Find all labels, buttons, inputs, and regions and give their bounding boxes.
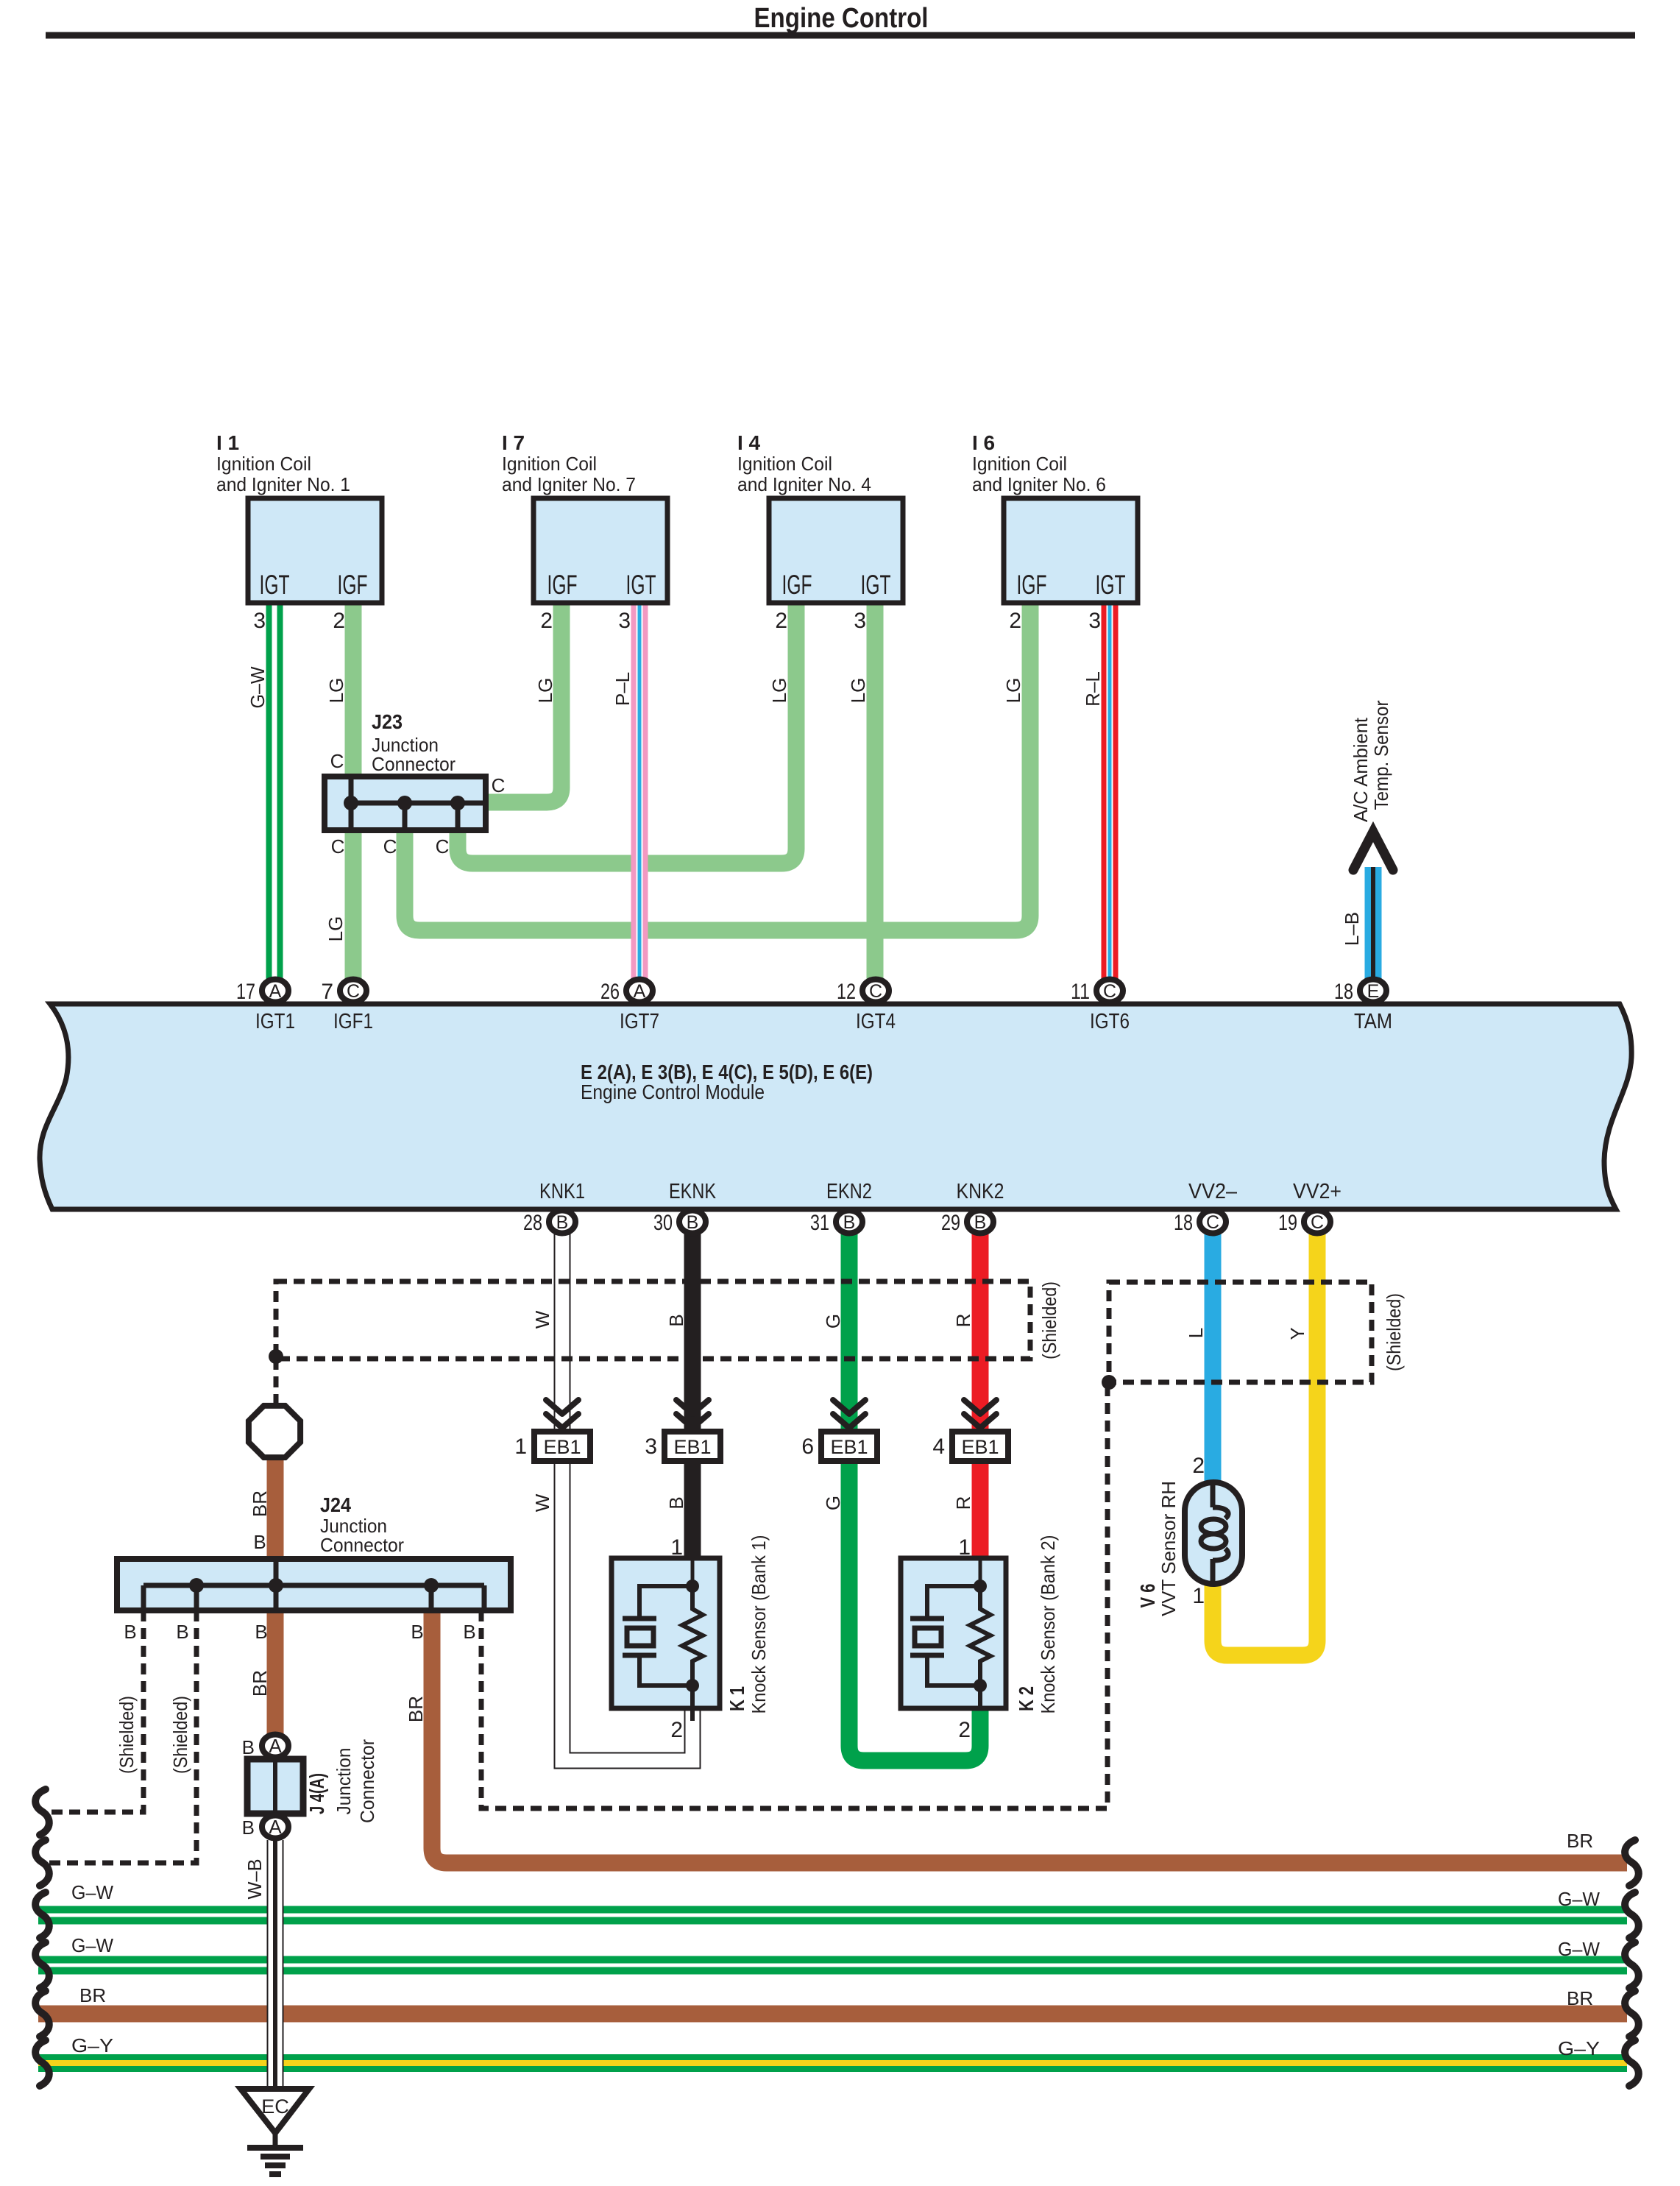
junction connector J24 box xyxy=(117,1559,511,1610)
svg-text:Ignition Coil: Ignition Coil xyxy=(502,453,597,475)
svg-text:G–W: G–W xyxy=(1558,1938,1600,1960)
ECM module body E2-E6 xyxy=(40,1004,1631,1209)
junction connector J23 box xyxy=(325,777,486,830)
svg-text:Y: Y xyxy=(1286,1327,1308,1340)
svg-text:B: B xyxy=(255,1621,267,1643)
svg-text:J23: J23 xyxy=(372,710,403,733)
svg-text:TAM: TAM xyxy=(1354,1010,1392,1033)
knock sensor K1 box xyxy=(612,1558,720,1721)
ECM pin numbers top xyxy=(236,980,1353,1004)
svg-text:1: 1 xyxy=(1192,1584,1205,1608)
svg-text:G–W: G–W xyxy=(247,666,269,708)
ECM pin 19 C (VV2+) xyxy=(1304,1211,1330,1234)
svg-text:18: 18 xyxy=(1334,980,1353,1004)
wire L from ECM pin 18 (VV2-) to V6 pin 2 xyxy=(1205,1223,1222,1484)
svg-text:Junction: Junction xyxy=(333,1748,355,1815)
node dot shield box1 xyxy=(269,1349,283,1364)
svg-text:(Shielded): (Shielded) xyxy=(1383,1293,1405,1371)
svg-text:EB1: EB1 xyxy=(830,1436,868,1458)
svg-text:Connector: Connector xyxy=(356,1739,378,1823)
connector EB1 pin 4 xyxy=(932,1400,1008,1461)
wire P-L from I7 IGT to ECM pin 26 (IGT7) xyxy=(631,600,648,989)
ECM name xyxy=(581,1061,873,1103)
svg-text:R: R xyxy=(952,1496,974,1510)
bus labels left xyxy=(71,1881,113,2056)
svg-text:BR: BR xyxy=(1567,1830,1593,1852)
svg-text:L: L xyxy=(1185,1328,1207,1338)
VVT sensor V6 body xyxy=(1185,1482,1242,1584)
svg-text:KNK2: KNK2 xyxy=(957,1180,1004,1203)
svg-text:A/C Ambient: A/C Ambient xyxy=(1350,717,1372,822)
label I1 xyxy=(216,431,350,495)
svg-text:C: C xyxy=(331,835,345,857)
svg-text:A: A xyxy=(269,1816,282,1838)
svg-text:EB1: EB1 xyxy=(961,1436,999,1458)
VVT pin numbers xyxy=(1192,1454,1205,1608)
ECM port labels top xyxy=(255,1010,1392,1033)
svg-text:C: C xyxy=(492,774,506,796)
svg-text:B: B xyxy=(124,1621,136,1643)
svg-text:IGT1: IGT1 xyxy=(255,1010,295,1033)
wire BR from shield octagon through J24 to J4(A) xyxy=(267,1456,284,1734)
svg-text:B: B xyxy=(411,1621,423,1643)
connector EB1 pin 1 xyxy=(514,1400,590,1461)
svg-text:LG: LG xyxy=(1002,678,1024,704)
svg-text:(Shielded): (Shielded) xyxy=(116,1696,138,1774)
wire G-W from I1 IGT to ECM pin 17 (IGT1) xyxy=(266,600,283,989)
svg-text:Connector: Connector xyxy=(372,753,456,775)
svg-text:B: B xyxy=(463,1621,475,1643)
svg-text:R–L: R–L xyxy=(1082,671,1104,707)
ECM pin 12 C (IGT4) xyxy=(862,980,889,1002)
svg-text:LG: LG xyxy=(534,678,556,704)
knock sensor K2 box xyxy=(901,1558,1006,1708)
svg-text:P–L: P–L xyxy=(612,672,634,706)
svg-text:J24: J24 xyxy=(320,1493,351,1516)
shield drain wire B left 1 xyxy=(40,1610,143,1812)
wire LG from I7 IGF to J23 right port xyxy=(486,600,561,802)
svg-text:C: C xyxy=(330,750,344,772)
wire W-B from J4(A) to ground EC xyxy=(267,1840,284,2092)
svg-text:12: 12 xyxy=(837,980,856,1004)
svg-text:IGF: IGF xyxy=(1017,570,1047,600)
svg-text:K 2: K 2 xyxy=(1015,1686,1038,1711)
shield drain wire B left 2 xyxy=(40,1610,196,1863)
ignition coil I7 box xyxy=(534,498,667,603)
wire B from ECM pin 30 (EKNK) to EB1 xyxy=(684,1223,701,1431)
wire LG from I1 IGF through J23 to ECM pin 7 (IGF1) xyxy=(345,600,362,989)
title rule xyxy=(46,32,1635,39)
shield drain wire B right to VVT shield xyxy=(481,1382,1107,1808)
svg-text:C: C xyxy=(383,835,397,857)
svg-text:G–Y: G–Y xyxy=(71,2034,113,2056)
svg-text:BR: BR xyxy=(79,1984,106,2006)
svg-text:and Igniter No. 6: and Igniter No. 6 xyxy=(972,473,1106,495)
junction connector J4(A) xyxy=(247,1735,303,1839)
svg-text:11: 11 xyxy=(1071,980,1090,1004)
ignition coil I4 box xyxy=(769,498,903,603)
svg-text:and Igniter No. 7: and Igniter No. 7 xyxy=(502,473,636,495)
svg-text:31: 31 xyxy=(810,1211,829,1235)
label J24 xyxy=(320,1493,404,1556)
svg-text:2: 2 xyxy=(1009,609,1021,633)
svg-text:Knock Sensor (Bank 1): Knock Sensor (Bank 1) xyxy=(748,1535,770,1714)
svg-text:Temp. Sensor: Temp. Sensor xyxy=(1370,700,1392,810)
svg-text:B: B xyxy=(665,1314,687,1326)
svg-text:and Igniter No. 4: and Igniter No. 4 xyxy=(737,473,871,495)
svg-text:LG: LG xyxy=(325,678,347,704)
ECM pin 18 C (VV2-) xyxy=(1199,1211,1226,1234)
svg-text:B: B xyxy=(665,1496,687,1509)
J4 B labels xyxy=(242,1736,255,1839)
svg-text:G–W: G–W xyxy=(1558,1888,1600,1910)
svg-text:E: E xyxy=(1367,981,1380,1002)
ECM pin 30 B (EKNK) xyxy=(679,1211,706,1234)
svg-text:(Shielded): (Shielded) xyxy=(1038,1281,1060,1359)
J24 B pin labels xyxy=(124,1531,475,1643)
ECM pin 17 A (IGT1) xyxy=(262,980,288,1002)
svg-text:G–Y: G–Y xyxy=(1558,2037,1600,2059)
svg-text:EKN2: EKN2 xyxy=(826,1180,872,1203)
wire B from EB1 to K1 pin 1 xyxy=(684,1462,701,1560)
svg-text:2: 2 xyxy=(540,609,553,633)
svg-text:IGT4: IGT4 xyxy=(856,1010,896,1033)
shield box around VVT sensor wires xyxy=(1109,1282,1372,1382)
svg-text:IGF1: IGF1 xyxy=(333,1010,373,1033)
svg-text:B: B xyxy=(253,1531,266,1553)
svg-text:3: 3 xyxy=(645,1435,657,1459)
svg-text:I 4: I 4 xyxy=(737,431,761,454)
wire W from EB1 to K1 pin 2 xyxy=(562,1462,692,1761)
wire LG from J23 to I4 IGF xyxy=(458,600,796,863)
knock sensor pin numbers xyxy=(670,1535,971,1742)
ECM pin 11 C (IGT6) xyxy=(1096,980,1123,1002)
svg-text:Engine Control Module: Engine Control Module xyxy=(581,1080,765,1103)
wire L-B from ECM pin 18 (TAM) to A/C ambient temp sensor xyxy=(1365,867,1382,989)
svg-text:KNK1: KNK1 xyxy=(539,1180,585,1203)
bus wire G-Y xyxy=(38,2054,1627,2072)
node dot shield box2 xyxy=(1102,1375,1116,1390)
shield box around knock sensor wires xyxy=(276,1281,1030,1359)
svg-text:C: C xyxy=(436,835,450,857)
svg-text:18: 18 xyxy=(1174,1211,1193,1235)
svg-text:LG: LG xyxy=(768,678,790,704)
svg-text:G–W: G–W xyxy=(71,1934,113,1956)
svg-text:28: 28 xyxy=(523,1211,542,1235)
arrowhead to A/C ambient temp sensor xyxy=(1353,832,1393,870)
svg-text:19: 19 xyxy=(1278,1211,1297,1235)
wire LG from J23 to I6 IGF xyxy=(405,600,1030,930)
svg-text:IGF: IGF xyxy=(547,570,578,600)
svg-text:B: B xyxy=(556,1212,569,1233)
wire R from EB1 to K2 pin 1 xyxy=(972,1462,989,1560)
svg-text:IGT6: IGT6 xyxy=(1090,1010,1130,1033)
wire R from ECM pin 29 (KNK2) to EB1 xyxy=(972,1223,989,1431)
svg-text:G: G xyxy=(822,1496,844,1510)
svg-text:Ignition Coil: Ignition Coil xyxy=(972,453,1067,475)
svg-text:VV2+: VV2+ xyxy=(1293,1180,1341,1203)
svg-text:C: C xyxy=(869,981,882,1002)
svg-text:BR: BR xyxy=(405,1696,427,1722)
label I7 xyxy=(502,431,636,495)
svg-text:J 4(A): J 4(A) xyxy=(305,1773,328,1814)
svg-text:B: B xyxy=(687,1212,699,1233)
bus wire G-W lower xyxy=(38,1956,1627,1975)
svg-text:VV2–: VV2– xyxy=(1188,1180,1238,1203)
bus wire G-W upper xyxy=(38,1906,1627,1925)
svg-text:C: C xyxy=(1311,1212,1324,1233)
svg-text:A: A xyxy=(269,1735,282,1757)
ignition coil I6 box xyxy=(1004,498,1138,603)
svg-text:3: 3 xyxy=(1088,609,1101,633)
svg-text:W–B: W–B xyxy=(244,1859,266,1900)
wire R-L from I6 IGT to ECM pin 11 (IGT6) xyxy=(1102,600,1119,989)
svg-text:29: 29 xyxy=(941,1211,960,1235)
ignition coil I1 box xyxy=(248,498,382,603)
svg-text:17: 17 xyxy=(236,980,255,1004)
svg-text:4: 4 xyxy=(932,1435,945,1459)
wire Y from ECM pin 19 (VV2+) to V6 pin 1 xyxy=(1213,1223,1317,1655)
label V6 (rotated) xyxy=(1136,1481,1180,1616)
wire color labels top section (rotated) xyxy=(247,666,1363,946)
svg-text:2: 2 xyxy=(670,1718,683,1742)
label A/C Ambient Temp. Sensor (rotated) xyxy=(1350,700,1392,822)
label I6 xyxy=(972,431,1106,495)
wire LG from I4 IGT to ECM pin 12 (IGT4) xyxy=(867,600,884,989)
svg-text:A: A xyxy=(634,981,646,1002)
svg-text:C: C xyxy=(347,981,360,1002)
svg-text:B: B xyxy=(843,1212,856,1233)
svg-text:EB1: EB1 xyxy=(673,1436,711,1458)
svg-text:and Igniter No. 1: and Igniter No. 1 xyxy=(216,473,350,495)
svg-text:VVT Sensor RH: VVT Sensor RH xyxy=(1158,1481,1180,1616)
svg-text:EB1: EB1 xyxy=(543,1436,581,1458)
svg-text:W: W xyxy=(531,1493,553,1512)
bus labels right xyxy=(1558,1830,1600,2059)
wire W from ECM pin 28 (KNK1) to EB1 xyxy=(554,1223,571,1431)
svg-text:R: R xyxy=(952,1314,974,1328)
shield drain to octagon xyxy=(274,1359,279,1406)
svg-text:BR: BR xyxy=(249,1670,271,1697)
svg-text:C: C xyxy=(1206,1212,1219,1233)
svg-text:3: 3 xyxy=(618,609,631,633)
svg-text:K 1: K 1 xyxy=(726,1686,748,1711)
coil pin numbers xyxy=(253,609,1101,633)
label J4(A) (rotated) xyxy=(305,1739,378,1823)
svg-text:IGT: IGT xyxy=(1096,570,1126,600)
svg-text:Ignition Coil: Ignition Coil xyxy=(737,453,832,475)
svg-text:1: 1 xyxy=(670,1535,683,1560)
ground EC xyxy=(241,2089,309,2174)
svg-text:Engine Control: Engine Control xyxy=(754,3,929,34)
svg-text:IGF: IGF xyxy=(782,570,812,600)
svg-text:2: 2 xyxy=(333,609,345,633)
svg-text:3: 3 xyxy=(253,609,266,633)
svg-text:I 7: I 7 xyxy=(502,431,525,454)
svg-text:B: B xyxy=(242,1736,255,1758)
shield ground octagon xyxy=(249,1406,300,1457)
pin names inside coil boxes xyxy=(260,570,1126,600)
continuation squiggles xyxy=(35,1789,1639,2086)
svg-text:IGT7: IGT7 xyxy=(620,1010,659,1033)
wire G from EB1 to K2 pin 2 xyxy=(849,1462,980,1761)
ECM port labels bottom xyxy=(539,1180,1341,1203)
svg-text:Ignition Coil: Ignition Coil xyxy=(216,453,311,475)
wire G from ECM pin 31 (EKN2) to EB1 xyxy=(841,1223,858,1431)
ECM pin numbers bottom xyxy=(523,1211,1297,1235)
svg-text:B: B xyxy=(242,1817,255,1839)
svg-text:30: 30 xyxy=(653,1211,673,1235)
svg-text:A: A xyxy=(269,981,282,1002)
label J23 xyxy=(372,710,456,775)
wire BR from J24 to right edge xyxy=(432,1609,1627,1863)
svg-text:I 6: I 6 xyxy=(972,431,995,454)
svg-text:1: 1 xyxy=(514,1435,527,1459)
connector EB1 pin 6 xyxy=(801,1400,877,1461)
svg-text:EC: EC xyxy=(261,2095,289,2118)
svg-text:W: W xyxy=(531,1310,553,1329)
ECM pin 28 B (KNK1) xyxy=(549,1211,575,1234)
svg-text:1: 1 xyxy=(958,1535,971,1560)
svg-text:G: G xyxy=(822,1314,844,1329)
connector EB1 pin 3 xyxy=(645,1400,720,1461)
svg-text:IGT: IGT xyxy=(861,570,891,600)
svg-text:IGT: IGT xyxy=(260,570,290,600)
ECM pin 26 A (IGT7) xyxy=(626,980,653,1002)
svg-text:BR: BR xyxy=(1567,1987,1593,2009)
wire color labels bottom (rotated) xyxy=(244,1310,1308,1899)
svg-text:LG: LG xyxy=(325,916,347,942)
svg-text:2: 2 xyxy=(1192,1454,1205,1478)
svg-text:2: 2 xyxy=(958,1718,971,1742)
label K1 (rotated) xyxy=(726,1535,770,1714)
label I4 xyxy=(737,431,871,495)
bus wire BR xyxy=(38,2006,1627,2023)
ECM pin 7 C (IGF1) xyxy=(340,980,366,1002)
svg-text:C: C xyxy=(1103,981,1116,1002)
svg-text:B: B xyxy=(176,1621,188,1643)
svg-text:BR: BR xyxy=(249,1490,271,1517)
svg-text:IGT: IGT xyxy=(626,570,656,600)
svg-text:Connector: Connector xyxy=(320,1534,404,1556)
svg-text:B: B xyxy=(974,1212,987,1233)
(Shielded) labels xyxy=(116,1281,1405,1774)
svg-text:V 6: V 6 xyxy=(1136,1584,1159,1608)
svg-text:I 1: I 1 xyxy=(216,431,239,454)
svg-text:6: 6 xyxy=(801,1435,814,1459)
svg-text:7: 7 xyxy=(321,980,333,1004)
svg-text:(Shielded): (Shielded) xyxy=(169,1696,191,1774)
svg-text:G–W: G–W xyxy=(71,1881,113,1903)
svg-text:EKNK: EKNK xyxy=(669,1180,717,1203)
J23 C pin labels xyxy=(330,750,506,857)
svg-text:L–B: L–B xyxy=(1341,912,1363,946)
ECM pin 18 E (TAM) xyxy=(1360,980,1386,1002)
svg-text:IGF: IGF xyxy=(338,570,368,600)
label K2 (rotated) xyxy=(1015,1535,1059,1714)
ECM pin 29 B (KNK2) xyxy=(967,1211,993,1234)
svg-text:2: 2 xyxy=(775,609,787,633)
svg-text:Knock Sensor (Bank 2): Knock Sensor (Bank 2) xyxy=(1037,1535,1059,1714)
svg-text:LG: LG xyxy=(847,678,869,704)
svg-text:26: 26 xyxy=(600,980,620,1004)
ECM pin 31 B (EKN2) xyxy=(836,1211,862,1234)
svg-text:3: 3 xyxy=(854,609,866,633)
